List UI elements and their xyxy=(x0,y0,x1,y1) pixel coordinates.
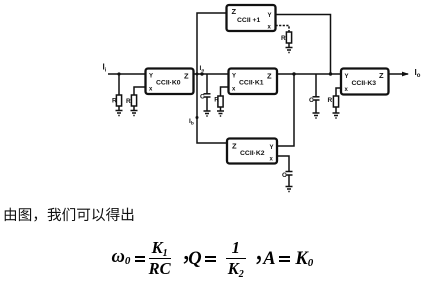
wire: output with arrow xyxy=(389,68,421,79)
wire: input to K0.Y xyxy=(108,73,145,75)
node Ib dot xyxy=(196,116,199,119)
capacitor C (node A) xyxy=(200,74,211,116)
node A junction xyxy=(200,72,203,75)
junction at feedback xyxy=(329,72,332,75)
wire: K1.Z to K3.Y (node B) xyxy=(277,73,341,75)
ground xyxy=(116,111,123,116)
ground xyxy=(286,187,293,192)
ground xyxy=(217,111,224,116)
formula comma 2 xyxy=(256,256,261,264)
document text 由图，我们可以得出 xyxy=(5,208,134,222)
op-amp U1 CCII·K0 xyxy=(146,69,194,95)
resistor R (K0 X) xyxy=(134,87,145,95)
capacitor C (node B) xyxy=(309,74,320,118)
resistor R (K3 X) xyxy=(328,88,341,118)
resistor R (K1 X) xyxy=(214,87,228,116)
op-amp U2 CCII·K1 xyxy=(229,69,278,95)
wire: K0.Z to K1.Y (node A) xyxy=(194,73,229,75)
node: input junction xyxy=(117,72,120,75)
op-amp U3 CCII+1 (top) xyxy=(227,5,276,31)
ground xyxy=(204,111,211,116)
resistor R (input shunt) xyxy=(118,74,120,95)
wire: K2.Y riser to node B xyxy=(277,74,294,146)
op-amp U4 CCII·K3 (output) xyxy=(341,69,389,95)
ground xyxy=(131,111,138,116)
op-amp U5 CCII·K2 (bottom) xyxy=(227,139,277,164)
wire: top feedback left (U3.Z to node A) xyxy=(197,13,227,143)
ground xyxy=(333,113,340,118)
node B junction xyxy=(292,72,295,75)
capacitor C (K2 X) xyxy=(277,156,293,192)
formula comma 1 xyxy=(184,256,189,264)
resistor R (U3 X) xyxy=(276,26,293,53)
junction where left feedback crosses main wire xyxy=(196,73,199,76)
ground xyxy=(313,113,320,118)
ground xyxy=(286,48,293,53)
wire: top feedback right (U3.Y to node B) xyxy=(276,15,331,75)
